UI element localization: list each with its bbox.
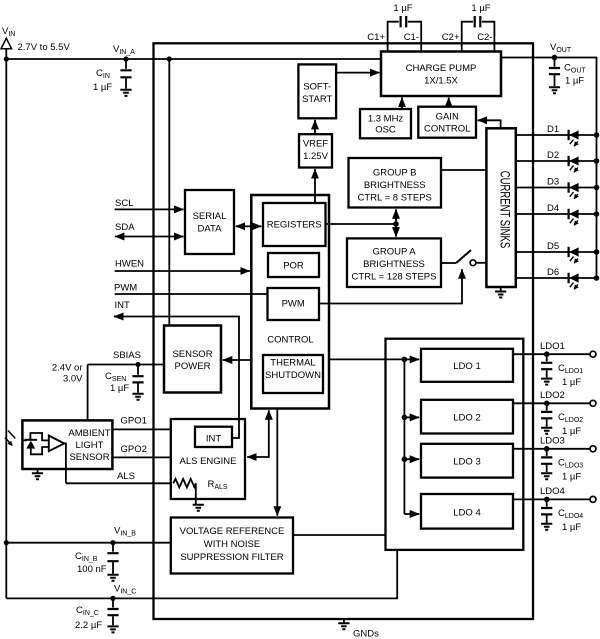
wire SCL <box>115 208 184 210</box>
block PWM <box>268 288 320 320</box>
svg-text:LDO 4: LDO 4 <box>453 508 480 519</box>
svg-text:OSC: OSC <box>375 125 396 136</box>
svg-text:1 µF: 1 µF <box>93 82 112 93</box>
switch group A to current sinks <box>441 250 486 266</box>
op-amp sensor amplifier <box>49 436 64 452</box>
node VIN_A junction <box>4 56 9 61</box>
svg-text:HWEN: HWEN <box>115 259 144 270</box>
wire GPO2 <box>112 456 170 458</box>
capacitor CIN <box>93 59 132 96</box>
svg-text:CURRENT SINKS: CURRENT SINKS <box>497 171 513 248</box>
wire VOUT <box>501 58 597 279</box>
svg-text:LDO2: LDO2 <box>540 390 565 401</box>
pin LDO2 output <box>513 390 596 406</box>
svg-text:GPO1: GPO1 <box>121 416 147 427</box>
svg-text:VREF: VREF <box>303 139 329 150</box>
wire VIN_B <box>6 542 171 544</box>
svg-text:D4: D4 <box>547 203 559 214</box>
svg-text:D6: D6 <box>547 267 559 278</box>
block LDO 2 <box>421 400 513 434</box>
wire left VIN rail <box>5 49 7 599</box>
svg-text:AMBIENT: AMBIENT <box>68 428 110 439</box>
svg-text:PWM: PWM <box>114 283 137 294</box>
node D6 junction <box>594 275 600 281</box>
wire gain control to charge pump <box>448 98 450 107</box>
block SOFT-START <box>298 64 336 118</box>
ground GNDs <box>338 619 379 639</box>
svg-text:GROUP B: GROUP B <box>373 168 417 179</box>
svg-text:1 µF: 1 µF <box>562 522 581 533</box>
svg-text:SERIAL: SERIAL <box>193 211 227 222</box>
svg-text:CTRL = 128 STEPS: CTRL = 128 STEPS <box>352 272 437 283</box>
photodiode <box>22 433 48 454</box>
block SERIAL DATA <box>185 190 234 254</box>
wire control to sensor power <box>223 359 252 361</box>
svg-text:1 µF: 1 µF <box>562 426 581 437</box>
wire group B to current sinks <box>441 169 486 171</box>
capacitor CIN_B <box>75 543 119 581</box>
svg-text:LDO 2: LDO 2 <box>453 413 480 424</box>
wire serial data to registers <box>236 225 262 227</box>
capacitor CLDO4 <box>541 499 583 533</box>
pin LDO3 output <box>513 436 596 452</box>
capacitor CLDO3 <box>541 449 583 483</box>
block CONTROL <box>251 195 329 409</box>
svg-text:GAIN: GAIN <box>436 112 459 123</box>
svg-text:LDO3: LDO3 <box>540 436 565 447</box>
block CHARGE PUMP <box>381 52 501 97</box>
svg-text:DATA: DATA <box>198 224 223 235</box>
wire D4 <box>516 213 597 215</box>
svg-text:C2+: C2+ <box>442 32 460 43</box>
wire OSC to charge pump <box>401 98 403 109</box>
svg-text:BRIGHTNESS: BRIGHTNESS <box>364 180 426 191</box>
svg-text:LDO 3: LDO 3 <box>453 457 480 468</box>
svg-text:1 µF: 1 µF <box>110 383 129 394</box>
svg-text:ALS: ALS <box>117 471 135 482</box>
wire current sinks to gain control <box>478 120 501 128</box>
block LDO 1 <box>421 349 513 382</box>
pin LDO4 output <box>513 486 596 502</box>
block 1.3 MHz OSC <box>360 109 411 138</box>
node junction registers wire <box>393 221 399 227</box>
LED D5 <box>569 247 579 263</box>
block ALS ENGINE <box>171 419 245 499</box>
block REGISTERS <box>263 203 326 246</box>
block POR <box>268 253 319 277</box>
svg-text:LIGHT: LIGHT <box>76 440 104 451</box>
wire PWM to switch <box>319 269 462 303</box>
wire SBIAS to sensor bias <box>87 365 89 421</box>
svg-text:3.0V: 3.0V <box>63 374 83 385</box>
block AMBIENT LIGHT SENSOR <box>22 420 112 469</box>
svg-text:GNDs: GNDs <box>353 629 379 639</box>
svg-text:CTRL = 8 STEPS: CTRL = 8 STEPS <box>358 193 432 204</box>
ground ambient light sensor <box>32 469 43 479</box>
wire into LDO 4 <box>404 513 419 515</box>
svg-text:D3: D3 <box>547 177 559 188</box>
svg-text:SUPPRESSION FILTER: SUPPRESSION FILTER <box>180 552 283 563</box>
svg-text:LDO4: LDO4 <box>540 486 565 497</box>
wire GPO1 <box>112 428 170 430</box>
svg-text:ALS ENGINE: ALS ENGINE <box>179 456 236 467</box>
wire PWM <box>115 293 268 295</box>
node D3 junction <box>594 185 600 191</box>
LED D3 <box>569 182 579 198</box>
svg-text:1.25V: 1.25V <box>303 151 328 162</box>
LED D2 <box>569 156 579 172</box>
svg-text:START: START <box>302 94 332 105</box>
block LDO container <box>386 339 524 550</box>
wire into LDO 2 <box>404 416 419 418</box>
capacitor C2 (flying cap 1µF) <box>462 3 495 52</box>
svg-text:1.3 MHz: 1.3 MHz <box>368 114 404 125</box>
svg-text:1 µF: 1 µF <box>471 3 490 14</box>
capacitor CLDO1 <box>541 354 583 388</box>
node D1 junction <box>594 132 600 138</box>
wire D5 <box>516 251 597 253</box>
svg-text:D1: D1 <box>547 124 559 135</box>
wire control to ALS engine (interrupt) <box>247 410 269 457</box>
wire internal VIN_A rail <box>168 59 170 326</box>
wire VIN_C <box>6 550 397 599</box>
svg-text:1 µF: 1 µF <box>565 76 584 87</box>
capacitor COUT <box>549 58 586 94</box>
svg-text:BRIGHTNESS: BRIGHTNESS <box>363 259 425 270</box>
LED D6 <box>569 273 579 289</box>
svg-text:2.7V to 5.5V: 2.7V to 5.5V <box>18 42 71 53</box>
block LDO 4 <box>421 494 513 529</box>
wire VIN_A horizontal <box>6 58 381 60</box>
svg-text:C1+: C1+ <box>367 32 385 43</box>
svg-text:VOLTAGE REFERENCE: VOLTAGE REFERENCE <box>180 526 285 537</box>
block GROUP B BRIGHTNESS <box>349 158 442 208</box>
node D5 junction <box>594 249 600 255</box>
block INT <box>195 427 232 447</box>
svg-text:1 µF: 1 µF <box>393 3 412 14</box>
light arrows <box>5 431 15 446</box>
svg-text:2.2 µF: 2.2 µF <box>75 620 102 631</box>
svg-text:SCL: SCL <box>115 198 133 209</box>
capacitor C1 (flying cap 1µF) <box>388 3 422 52</box>
wire INT <box>114 317 239 439</box>
wire group B / group A double arrow <box>395 209 397 236</box>
svg-text:100 nF: 100 nF <box>77 564 107 575</box>
svg-text:SENSOR: SENSOR <box>69 452 109 463</box>
wire SDA <box>115 236 184 238</box>
block CURRENT SINKS <box>486 128 515 287</box>
ground under current sinks <box>495 287 506 298</box>
svg-text:PWM: PWM <box>282 299 305 310</box>
svg-text:1 µF: 1 µF <box>562 472 581 483</box>
wire soft-start to charge pump <box>336 72 379 74</box>
block LDO 3 <box>421 444 513 478</box>
wire voltage ref to LDO block <box>293 534 386 536</box>
svg-text:WITH NOISE: WITH NOISE <box>204 539 260 550</box>
svg-text:GPO2: GPO2 <box>121 444 147 455</box>
svg-text:GROUP A: GROUP A <box>372 247 416 258</box>
wire registers to VREF <box>314 169 316 203</box>
svg-text:SDA: SDA <box>115 222 135 233</box>
wire into LDO 3 <box>404 458 419 460</box>
svg-text:SBIAS: SBIAS <box>113 350 141 361</box>
wire ALS <box>66 482 173 484</box>
svg-text:CONTROL: CONTROL <box>267 335 313 346</box>
svg-text:SOFT-: SOFT- <box>303 82 331 93</box>
block GAIN CONTROL <box>418 107 476 138</box>
svg-text:D2: D2 <box>547 150 559 161</box>
svg-text:INT: INT <box>115 300 131 311</box>
svg-text:SENSOR: SENSOR <box>172 349 212 360</box>
block VOLTAGE REFERENCE <box>171 518 293 574</box>
svg-text:CONTROL: CONTROL <box>424 124 470 135</box>
capacitor CIN_C <box>75 598 119 632</box>
node D2 junction <box>594 158 600 164</box>
svg-text:1X/1.5X: 1X/1.5X <box>424 76 458 87</box>
wire SBIAS <box>88 364 164 366</box>
svg-text:1 µF: 1 µF <box>562 377 581 388</box>
LED D4 <box>569 209 579 225</box>
capacitor CSEN <box>105 365 144 400</box>
wire D1 <box>516 134 597 136</box>
wire D6 <box>516 277 597 279</box>
svg-text:POWER: POWER <box>175 361 211 372</box>
block GROUP A BRIGHTNESS <box>347 238 441 287</box>
svg-text:SHUTDOWN: SHUTDOWN <box>265 370 321 381</box>
svg-text:THERMAL: THERMAL <box>270 358 315 369</box>
svg-text:INT: INT <box>206 434 222 445</box>
capacitor CLDO2 <box>541 403 583 437</box>
pin LDO1 output <box>513 341 596 357</box>
block VREF 1.25V <box>299 134 332 167</box>
svg-text:2.4V or: 2.4V or <box>52 363 83 374</box>
wire D2 <box>516 160 597 162</box>
wire amp output to ALS <box>64 443 66 483</box>
svg-text:LDO 1: LDO 1 <box>453 361 480 372</box>
svg-text:C2-: C2- <box>477 32 492 43</box>
wire into LDO 1 <box>404 358 419 360</box>
wire VREF to soft-start <box>314 120 316 134</box>
LED D1 <box>569 130 579 146</box>
wire registers to brightness groups <box>326 223 397 225</box>
wire control to voltage reference <box>276 409 278 516</box>
svg-text:REGISTERS: REGISTERS <box>267 220 322 231</box>
resistor RALS <box>173 479 228 511</box>
chip outer border <box>154 43 534 619</box>
wire control to LDO inputs <box>329 358 404 360</box>
svg-text:POR: POR <box>283 261 304 272</box>
node VIN <box>1 26 70 53</box>
block SENSOR POWER <box>164 326 221 393</box>
wire HWEN <box>115 270 250 272</box>
svg-text:C1-: C1- <box>404 32 419 43</box>
node VIN_B junction on rail <box>4 540 9 545</box>
node D4 junction <box>594 211 600 217</box>
svg-text:D5: D5 <box>547 241 559 252</box>
block THERMAL SHUTDOWN <box>263 355 323 393</box>
svg-text:CHARGE PUMP: CHARGE PUMP <box>406 63 477 74</box>
svg-text:LDO1: LDO1 <box>540 341 565 352</box>
wire D3 <box>516 187 597 189</box>
